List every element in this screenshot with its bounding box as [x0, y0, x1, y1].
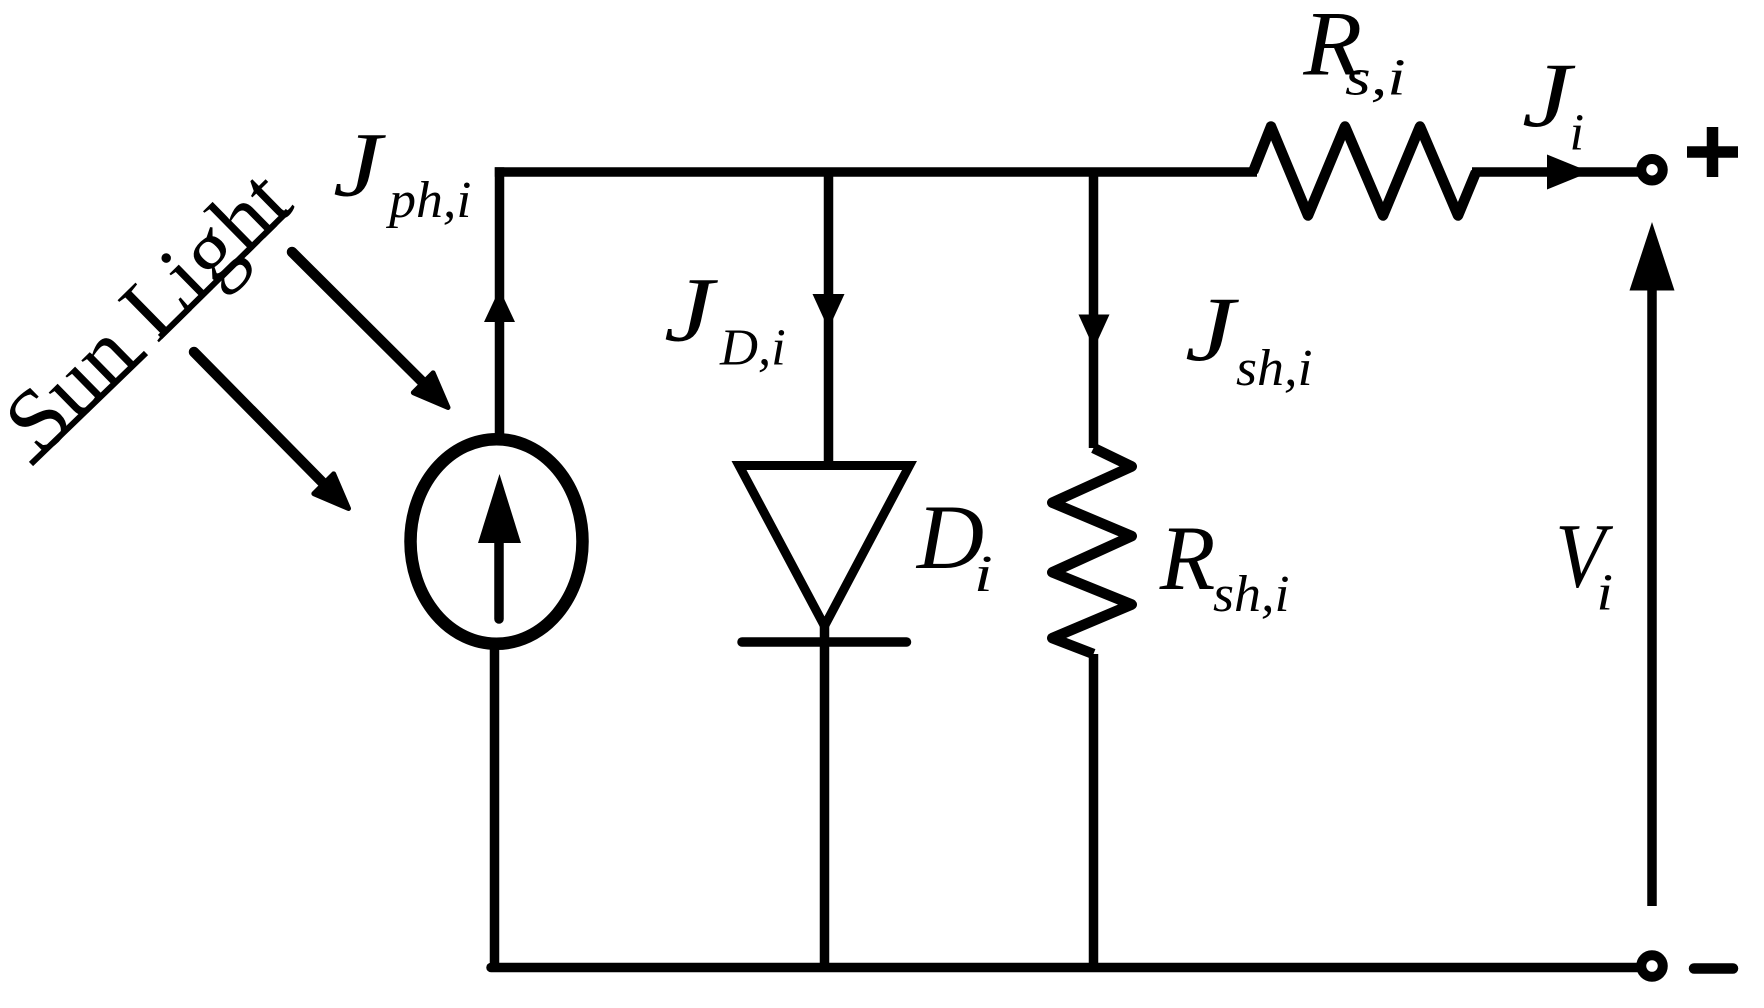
wire bottom rail [491, 963, 1638, 973]
current source arrow shaft [494, 540, 504, 619]
wire top rail [495, 167, 1257, 177]
svg-text:i: i [1596, 565, 1613, 622]
resistor R_sh,i zigzag [1052, 448, 1132, 654]
wire shunt branch lower [1089, 654, 1099, 963]
svg-text:J: J [1185, 278, 1240, 380]
sun light underline [31, 353, 146, 464]
sun light text [0, 151, 310, 472]
terminal - circle [1641, 955, 1663, 977]
minus sign [1694, 963, 1733, 974]
arrowhead J_i right [1547, 155, 1590, 190]
V_i arrow line [1647, 288, 1657, 906]
arrowhead J_ph up [484, 289, 515, 322]
wire diode branch upper [824, 172, 834, 465]
current source J_ph,i circle [411, 439, 583, 644]
wire shunt branch upper [1089, 172, 1099, 448]
terminal + circle [1641, 159, 1663, 181]
svg-text:sh,i: sh,i [1213, 566, 1290, 623]
current source arrow head [478, 474, 521, 543]
svg-text:R: R [1159, 507, 1216, 609]
sun ray arrow 2 shaft [194, 352, 326, 486]
svg-text:J: J [333, 113, 387, 215]
resistor R_s,i zigzag [1253, 127, 1476, 216]
arrowhead J_sh down [1079, 315, 1110, 349]
diode cathode bar [742, 637, 907, 647]
wire top right segment [1472, 167, 1638, 177]
svg-text:D,i: D,i [719, 319, 786, 376]
svg-text:i: i [1570, 104, 1585, 161]
svg-text:s,i: s,i [1345, 50, 1406, 107]
svg-text:J: J [664, 259, 719, 361]
arrowhead J_D down [813, 294, 845, 329]
wire left branch upper [495, 167, 505, 437]
wire left branch lower [490, 646, 500, 963]
svg-text:ph,i: ph,i [385, 172, 471, 229]
wire diode branch lower [820, 626, 830, 967]
svg-text:sh,i: sh,i [1236, 340, 1313, 397]
plus sign [1687, 127, 1738, 177]
svg-text:J: J [1522, 44, 1576, 146]
sun ray arrow 2 head [314, 474, 349, 509]
svg-text:i: i [974, 546, 993, 603]
sun ray arrow 1 head [413, 373, 448, 408]
V_i arrowhead [1630, 222, 1675, 291]
diode D_i triangle [739, 466, 910, 627]
sun ray arrow 1 shaft [292, 252, 426, 386]
